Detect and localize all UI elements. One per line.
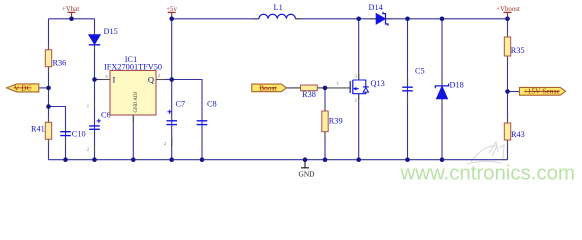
node R39 top (323, 86, 328, 91)
node Vbat stem (69, 17, 74, 22)
diode D18 (zener) (435, 80, 463, 106)
node rail IC gnd (131, 157, 136, 162)
svg-text:GND: GND (298, 170, 315, 179)
wire left rail (R36/R41 column) (48, 19, 50, 160)
wire C8 branch (172, 80, 202, 160)
wire boost row (287, 87, 326, 89)
svg-text:C7: C7 (176, 100, 186, 109)
node rail Q13 source (356, 157, 361, 162)
resistor R36 (45, 44, 66, 72)
svg-text:D18: D18 (450, 81, 464, 90)
node rail C6 (92, 157, 97, 162)
port V DC (7, 84, 39, 93)
svg-text:R35: R35 (511, 46, 525, 55)
svg-text:I: I (113, 74, 116, 84)
transistor Q13 (NMOS) (325, 74, 385, 103)
svg-text:R36: R36 (53, 59, 67, 68)
power symbol +5v (166, 6, 177, 19)
wire IC input (95, 79, 111, 81)
diode D15 (89, 27, 118, 51)
svg-text:R43: R43 (511, 130, 525, 139)
svg-text:www.cntronics.com: www.cntronics.com (400, 163, 576, 185)
node +5v stem (169, 17, 174, 22)
svg-text:R39: R39 (329, 117, 343, 126)
node rail C10 (63, 157, 68, 162)
svg-text:Boost: Boost (259, 84, 277, 92)
svg-text:C8: C8 (207, 100, 217, 109)
svg-text:L1: L1 (274, 3, 283, 12)
wire right column R35/R43 (507, 19, 509, 160)
wire +5v column through C7 (171, 19, 173, 160)
resistor R41 (31, 117, 52, 146)
svg-text:R38: R38 (302, 90, 316, 99)
node rail R39 (323, 157, 328, 162)
node D18 top (440, 17, 445, 22)
inductor L1 (254, 3, 301, 19)
svg-text:C5: C5 (415, 67, 425, 76)
node rail C7 (169, 157, 174, 162)
wire D15/C6 column (94, 19, 96, 160)
svg-text:C6: C6 (101, 111, 111, 120)
node 15V sense (505, 89, 510, 94)
power symbol +Vbat (62, 6, 79, 19)
node IC output (169, 77, 174, 82)
svg-text:Q: Q (148, 74, 154, 84)
capacitor C7 (164, 100, 185, 147)
wire C10 branch (49, 107, 66, 160)
node rail D18 (440, 157, 445, 162)
port Boost (252, 84, 287, 92)
node C10 branch (46, 104, 51, 109)
node Q13 drain top (356, 17, 361, 22)
wire GND rail (49, 159, 508, 161)
svg-text:Q13: Q13 (371, 79, 385, 88)
resistor R39 (322, 106, 343, 138)
wire +15V sense stub (508, 91, 520, 93)
wire C5 column (407, 19, 409, 160)
IC U1 IFX27001TFV50 (100, 55, 166, 122)
capacitor C6 (87, 101, 111, 152)
node rail C8 (200, 157, 205, 162)
resistor R38 (293, 85, 324, 99)
ground symbol (298, 160, 315, 179)
svg-text:D14: D14 (369, 3, 384, 12)
capacitor C5 (402, 67, 424, 105)
node Vboost corner (505, 17, 510, 22)
wire R39 column (324, 88, 326, 160)
node IC input (92, 77, 97, 82)
svg-text:C10: C10 (72, 129, 86, 138)
node rail GND (303, 157, 308, 162)
resistor R35 (504, 31, 524, 62)
svg-text:GND ADJ: GND ADJ (134, 91, 139, 112)
diode D14 (schottky) (369, 3, 392, 26)
capacitor C10 (60, 129, 85, 148)
wire V DC to rail (39, 87, 49, 89)
wire top rail 5v to boost (172, 18, 259, 20)
wire top rail after L1 (295, 18, 507, 20)
svg-text:V DC: V DC (14, 84, 31, 92)
capacitor C8 (197, 100, 217, 147)
node V DC join (46, 86, 51, 91)
node C5 top (405, 17, 410, 22)
watermark logo sketch (467, 142, 504, 164)
resistor R43 (504, 117, 525, 146)
wire D18 column (441, 19, 443, 160)
wire IC gnd pin down (132, 115, 134, 160)
svg-text:D15: D15 (104, 27, 118, 36)
power symbol +Vboost (496, 6, 520, 19)
wire IC output (156, 79, 172, 81)
node rail C5 (405, 157, 410, 162)
svg-text:R41: R41 (31, 125, 45, 134)
wire Q13 drain/source column (358, 19, 360, 160)
wire Vbat top rail (49, 18, 95, 20)
port +15V Sense (520, 87, 566, 95)
